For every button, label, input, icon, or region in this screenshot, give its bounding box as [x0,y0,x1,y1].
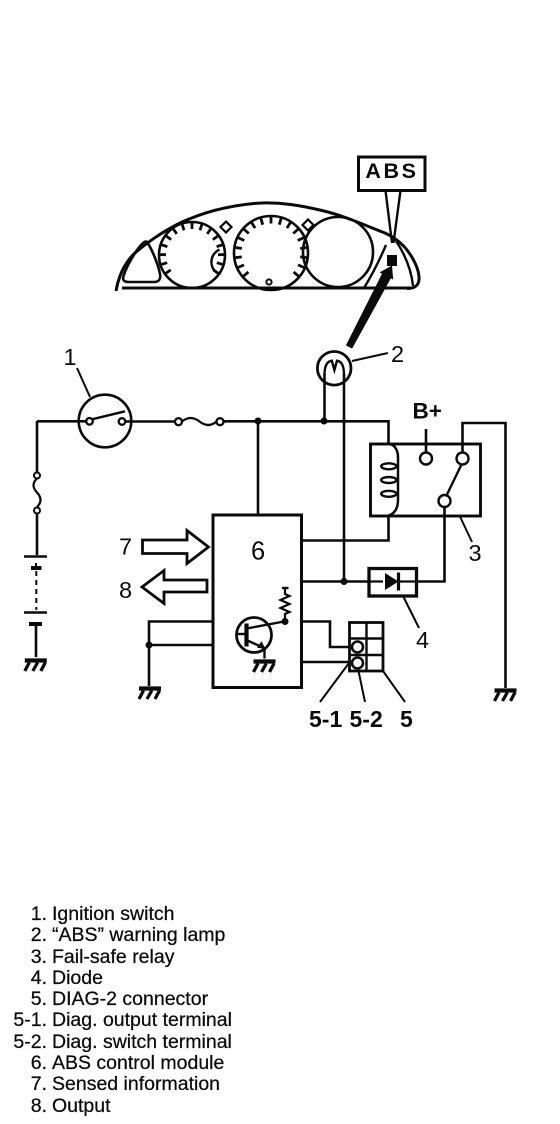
ABS callout pointer [386,191,401,244]
node junction module feed [255,418,262,425]
ignition switch [79,395,132,448]
indicator diamond right [303,220,314,231]
wire diode to relay contact [417,507,445,582]
diode D1 [369,569,417,597]
relay contact mover [439,495,451,507]
legend list [0,904,232,1117]
transistor Q1 [237,618,285,659]
middle gauge [234,216,308,290]
arrow 7 sensed information [143,531,209,564]
svg-text:4: 4 [416,627,429,653]
node junction lamp feed [321,418,328,425]
svg-text:5-1: 5-1 [309,706,342,732]
ABS indicator square [387,255,397,266]
label 1 [64,344,91,397]
right gauge [303,217,373,287]
ground module [139,689,161,700]
wire battery branch [36,421,39,472]
battery B1 [24,557,47,625]
arrow 8 output [142,571,207,604]
wire module to connector 5-1 [302,622,350,648]
label 2 [352,341,404,367]
terminal 5-1 [352,642,363,653]
cluster end-cap inner arc right [396,241,413,286]
resistor R1 [281,588,290,622]
relay terminal B+ [420,453,432,465]
cluster end-cap inner arc left [364,245,386,288]
svg-text:5: 5 [400,706,413,732]
wire battery to ground [35,626,38,657]
leader 5 [383,671,405,702]
svg-text:6: 6 [251,538,265,566]
svg-text:B+: B+ [413,399,442,424]
wire module to diode [302,580,370,583]
svg-text:8: 8 [119,577,132,603]
ground right [495,691,517,702]
wire module to connector 5-2 [302,661,350,664]
relay coil [389,444,399,516]
ABS callout box [359,157,426,191]
fuse F1 [175,418,224,425]
svg-text:1: 1 [64,344,77,370]
svg-text:3: 3 [469,540,482,566]
wire relay coil return [302,515,389,541]
wire B+ lead [425,429,428,453]
DIAG-2 connector 5 [350,623,384,672]
ground battery [25,661,47,672]
node lamp-diode junction [341,578,348,585]
node junction left [146,642,153,649]
label 4 [403,596,429,653]
terminal 5-2 [352,658,363,669]
fusible link [34,473,41,514]
fail-safe relay box 3 [371,444,481,516]
ABS warning lamp [317,352,351,386]
wire module left A [149,622,213,687]
svg-text:ABS: ABS [365,159,418,183]
wire lamp right lead [343,374,346,582]
node resistor-collector junction [282,618,289,625]
relay contact upper [457,453,469,465]
wire module feed [257,421,260,515]
svg-text:2: 2 [391,341,404,367]
label 3 [460,517,482,567]
wire ignition row [37,420,175,423]
wire lamp left lead [323,374,326,421]
wire to battery [36,514,39,556]
svg-text:5-2: 5-2 [350,706,383,732]
left gauge [159,222,225,288]
thick arrow to ABS indicator [346,266,393,349]
leader 5-1 [320,663,349,702]
svg-text:7: 7 [119,534,132,560]
wire module left B [149,644,213,647]
wire relay output to ground [463,423,506,688]
relay switch arm [447,465,462,496]
leader 5-2 [359,671,366,702]
ABS control module box 6 [213,515,302,688]
ground transistor emitter [254,662,276,673]
cluster left vent triangle [123,242,160,283]
indicator diamond left [221,222,232,233]
wire to relay coil [224,421,389,444]
instrument cluster outline [116,203,419,291]
